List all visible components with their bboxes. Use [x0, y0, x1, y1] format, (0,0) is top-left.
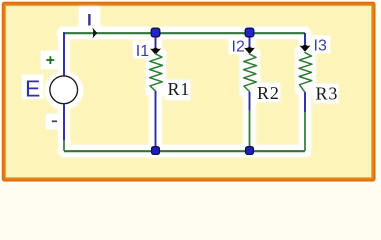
svg-text:R2: R2 — [257, 83, 280, 103]
wire R3 bottom green segment — [304, 112, 306, 151]
resistor R2 zigzag — [244, 54, 257, 91]
svg-text:E: E — [25, 76, 40, 102]
node A top R1 — [151, 28, 160, 37]
wire E column top lead — [63, 32, 65, 76]
source E circle — [50, 76, 78, 104]
arrow I3 down — [299, 44, 310, 52]
node D bottom R2 — [246, 147, 254, 155]
minus sign — [52, 120, 57, 122]
node B top R2 — [245, 28, 254, 37]
svg-text:R1: R1 — [168, 79, 191, 99]
wire R1 top lead — [155, 36, 157, 48]
wire top rail — [63, 32, 305, 34]
wire R2 top lead — [249, 36, 251, 47]
wire R3 bottom lead navy — [304, 92, 306, 112]
wire E column bottom lead — [63, 104, 65, 141]
arrow I rightward — [92, 28, 97, 39]
svg-text:I1: I1 — [136, 43, 149, 60]
svg-text:R3: R3 — [316, 84, 339, 104]
wire bottom rail — [64, 150, 305, 152]
wire R1 bottom lead — [155, 91, 157, 147]
svg-text:I2: I2 — [232, 39, 245, 56]
yellow panel with orange border — [4, 4, 374, 180]
wire R2 bottom lead — [249, 92, 251, 110]
plus sign — [46, 56, 54, 64]
svg-text:I3: I3 — [314, 38, 327, 55]
wire R3 top lead — [304, 33, 306, 45]
wire E bottom green segment — [63, 140, 65, 151]
resistor R1 zigzag — [150, 54, 163, 91]
resistor R3 zigzag — [299, 53, 312, 93]
wire R2 bottom green segment — [249, 110, 251, 147]
arrow I2 down — [244, 46, 255, 54]
page background — [0, 0, 381, 187]
node C bottom R1 — [152, 147, 160, 155]
svg-text:I: I — [87, 11, 92, 30]
arrow I1 down — [150, 47, 161, 55]
